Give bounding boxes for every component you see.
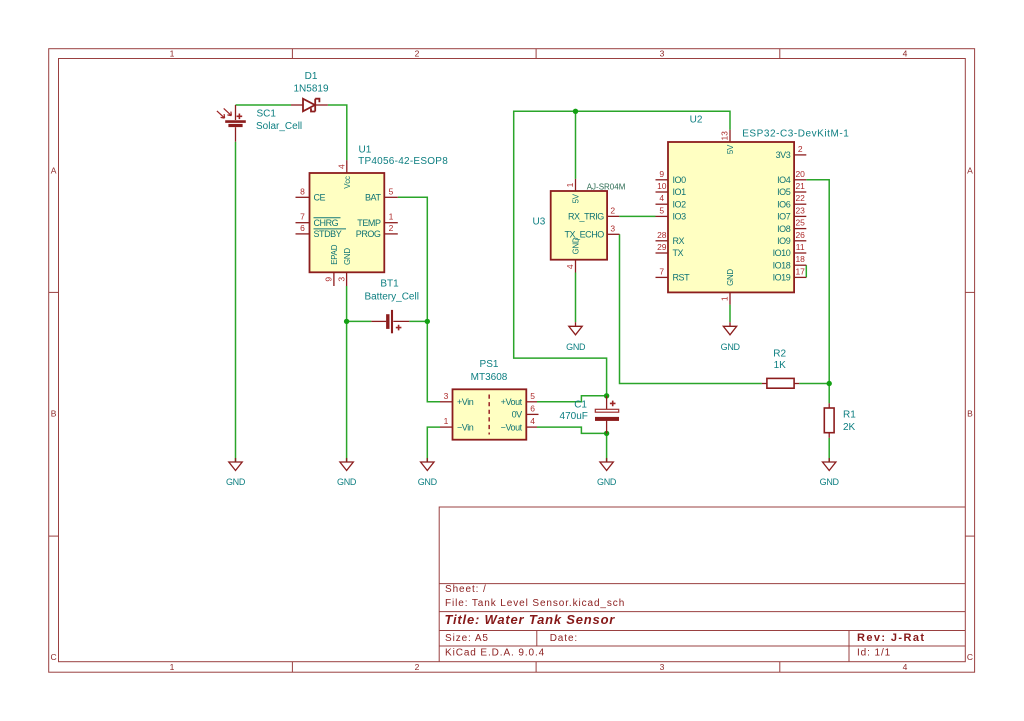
battery BT1	[371, 310, 409, 333]
svg-text:11: 11	[796, 242, 805, 252]
U1 pin 3 GND bottom	[346, 272, 348, 286]
sensor U3 AJ-SR04M body	[551, 191, 607, 260]
frame column tick 2|3 bottom	[535, 662, 537, 673]
svg-text:21: 21	[795, 181, 805, 191]
svg-text:Sheet: /: Sheet: /	[445, 584, 487, 595]
svg-text:BAT: BAT	[365, 193, 381, 203]
svg-text:C: C	[967, 652, 973, 662]
svg-text:Vcc: Vcc	[343, 176, 352, 189]
svg-text:5V: 5V	[726, 144, 735, 154]
diode D1 1N5819 schottky	[291, 99, 328, 112]
junction C1 bottom node	[604, 431, 609, 436]
U3 pin 1 5V top	[575, 179, 577, 191]
svg-text:A: A	[967, 166, 973, 176]
U2 pin 10 IO1	[656, 191, 669, 193]
svg-text:TP4056-42-ESOP8: TP4056-42-ESOP8	[358, 156, 448, 167]
svg-text:R2: R2	[773, 349, 786, 360]
svg-text:3V3: 3V3	[776, 150, 791, 160]
wire U2 IO4 right and down to divider node	[806, 180, 829, 384]
title block row line above Size	[439, 630, 965, 632]
svg-text:C: C	[51, 652, 57, 662]
sheet frame outer border	[49, 49, 975, 673]
svg-text:6: 6	[530, 403, 535, 413]
svg-text:7: 7	[659, 266, 664, 276]
wire C1 bottom node to GND	[606, 433, 608, 461]
wire diode cathode to U1 VCC pin	[328, 105, 347, 160]
svg-text:4: 4	[565, 264, 575, 269]
svg-text:IO6: IO6	[777, 199, 791, 209]
svg-text:B: B	[51, 408, 57, 418]
ground symbol under R1	[823, 458, 836, 471]
svg-text:IO3: IO3	[673, 212, 687, 222]
svg-text:2: 2	[798, 144, 803, 154]
svg-text:GND: GND	[343, 248, 352, 265]
U2 pin 21 IO5	[794, 191, 806, 193]
title block outline	[439, 507, 965, 662]
svg-text:8: 8	[300, 186, 305, 196]
svg-text:TX: TX	[673, 248, 684, 258]
svg-text:SC1: SC1	[257, 109, 277, 120]
svg-text:−Vout: −Vout	[501, 422, 523, 432]
svg-text:1: 1	[565, 182, 575, 187]
frame row tick A|B left	[49, 291, 59, 293]
wire 5V net C1 node up across to U2 5V pin	[514, 111, 730, 396]
frame column tick 3|4 bottom	[779, 662, 781, 673]
PS1 pin 1 -Vin	[440, 426, 453, 428]
wire battery plus node down to PS1 +Vin	[427, 321, 440, 401]
title block row line above Sheet	[439, 583, 965, 585]
svg-text:GND: GND	[226, 477, 246, 487]
svg-text:IO8: IO8	[777, 224, 791, 234]
svg-text:1: 1	[444, 416, 449, 426]
svg-text:IO4: IO4	[777, 175, 791, 185]
U3 pin 4 GND bottom	[575, 260, 577, 273]
svg-text:RX_TRIG: RX_TRIG	[568, 212, 604, 222]
ground symbol under U1	[340, 458, 353, 471]
svg-text:18: 18	[795, 254, 805, 264]
U1 pin 2 PROG	[384, 233, 398, 235]
frame column tick 3|4 top	[779, 49, 781, 59]
U2 pin 5 IO3	[656, 215, 669, 217]
svg-text:3: 3	[336, 277, 346, 282]
U2 pin 29 TX	[656, 252, 669, 254]
U2 pin 25 IO8	[794, 228, 806, 230]
ground symbol under U3	[569, 322, 582, 335]
svg-text:GND: GND	[726, 269, 735, 286]
svg-text:Size: A5: Size: A5	[445, 633, 489, 644]
title block row line above KiCad	[439, 645, 965, 647]
U1 pin 4 VCC top	[346, 160, 348, 173]
ground symbol under solar cell	[229, 458, 242, 471]
svg-text:2K: 2K	[843, 422, 856, 433]
wire R1 bottom to GND	[828, 438, 830, 462]
svg-text:9: 9	[324, 277, 334, 282]
svg-text:Battery_Cell: Battery_Cell	[364, 291, 418, 302]
svg-text:26: 26	[795, 230, 805, 240]
svg-text:IO2: IO2	[673, 199, 687, 209]
junction battery minus node	[344, 319, 349, 324]
MCU U2 ESP32 body	[668, 142, 794, 292]
svg-text:28: 28	[657, 230, 667, 240]
svg-text:4: 4	[336, 164, 346, 169]
svg-text:29: 29	[657, 242, 667, 252]
frame column tick 1|2 bottom	[291, 662, 293, 673]
svg-text:2: 2	[415, 49, 420, 59]
svg-text:3: 3	[444, 391, 449, 401]
U2 pin 9 IO0	[656, 179, 669, 181]
svg-text:IO7: IO7	[777, 212, 791, 222]
svg-text:10: 10	[657, 181, 667, 191]
svg-text:−Vin: −Vin	[457, 422, 474, 432]
U2 pin 11 IO10	[794, 252, 806, 254]
wire U2 GND pin down to GND	[729, 305, 731, 323]
ground symbol under U2	[723, 322, 736, 335]
PS1 pin 3 +Vin	[440, 401, 453, 403]
wire tying U2 IO18 to IO19	[805, 265, 807, 277]
wire U3 TX_ECHO down and right to R2	[620, 234, 762, 383]
frame column tick 2|3 top	[535, 49, 537, 59]
wire U1 BAT pin to battery plus node	[398, 197, 428, 321]
svg-text:CHRG: CHRG	[314, 218, 339, 228]
svg-text:C1: C1	[574, 399, 587, 410]
svg-text:4: 4	[903, 49, 908, 59]
svg-text:25: 25	[795, 218, 805, 228]
U1 pin 1 TEMP	[384, 222, 398, 224]
svg-text:1: 1	[170, 662, 175, 672]
svg-text:IO10: IO10	[773, 248, 791, 258]
wire PS1 -Vin to GND	[427, 427, 440, 462]
svg-text:22: 22	[795, 193, 805, 203]
PS1 pin 4 -Vout	[526, 426, 537, 428]
U3 pin 3 TX_ECHO	[607, 233, 619, 235]
svg-text:IO19: IO19	[773, 273, 791, 283]
U2 pin 2 3V3	[794, 154, 806, 156]
U3 pin 2 RX_TRIG	[607, 215, 619, 217]
frame row tick B|C right	[965, 535, 974, 537]
wire PS1 +Vout to C1 top node	[537, 396, 607, 402]
svg-text:23: 23	[795, 205, 805, 215]
U2 pin 22 IO6	[794, 203, 806, 205]
svg-text:4: 4	[903, 662, 908, 672]
svg-text:GND: GND	[572, 237, 581, 254]
svg-text:2: 2	[415, 662, 420, 672]
wire U3 GND pin down to GND	[575, 273, 577, 323]
U1 pin 9 EPAD bottom	[333, 272, 335, 286]
svg-text:9: 9	[659, 169, 664, 179]
junction divider node R1 R2 IO4	[827, 381, 832, 386]
wire battery minus pin to node	[347, 320, 372, 322]
U2 pin 13 5V top	[729, 130, 731, 142]
U2 pin 17 IO19	[794, 276, 806, 278]
wire U3 RX_TRIG to U2 IO3	[619, 215, 655, 217]
svg-text:GND: GND	[418, 477, 438, 487]
frame row tick B|C left	[49, 535, 59, 537]
svg-text:1: 1	[719, 296, 729, 301]
svg-text:GND: GND	[337, 477, 357, 487]
svg-text:IO9: IO9	[777, 236, 791, 246]
svg-text:TEMP: TEMP	[357, 218, 381, 228]
solar cell SC1	[217, 105, 246, 142]
resistor R2 horizontal	[762, 378, 799, 388]
svg-text:ESP32-C3-DevKitM-1: ESP32-C3-DevKitM-1	[742, 129, 849, 140]
svg-text:2: 2	[610, 205, 615, 215]
svg-text:1: 1	[170, 49, 175, 59]
svg-text:R1: R1	[843, 410, 856, 421]
svg-text:U2: U2	[690, 115, 703, 126]
svg-text:RX: RX	[673, 236, 685, 246]
svg-text:IO5: IO5	[777, 187, 791, 197]
PS1 pin 5 +Vout	[526, 401, 537, 403]
svg-text:20: 20	[795, 169, 805, 179]
svg-text:5: 5	[659, 205, 664, 215]
junction battery plus node	[425, 319, 430, 324]
svg-text:Rev: J-Rat: Rev: J-Rat	[857, 632, 925, 644]
U2 pin 23 IO7	[794, 215, 806, 217]
svg-text:A: A	[51, 166, 57, 176]
svg-text:4: 4	[659, 193, 664, 203]
svg-text:IO1: IO1	[673, 187, 687, 197]
U2 pin 28 RX	[656, 240, 669, 242]
title block divider Size|Date	[536, 631, 538, 647]
svg-text:0V: 0V	[512, 410, 523, 420]
svg-text:RST: RST	[673, 273, 691, 283]
capacitor C1 polarized	[595, 396, 618, 434]
wire solar cell bottom to GND	[235, 142, 237, 462]
frame row tick A|B right	[965, 291, 974, 293]
svg-text:EPAD: EPAD	[330, 244, 339, 264]
junction C1 top node	[604, 393, 609, 398]
U2 pin 4 IO2	[656, 203, 669, 205]
wire R2 right lead to divider node	[799, 383, 829, 385]
wire solar cell top to diode anode	[236, 104, 292, 106]
svg-text:5V: 5V	[572, 193, 581, 203]
svg-text:GND: GND	[597, 477, 617, 487]
wire U1 GND pin down to GND, through battery minus node	[346, 286, 348, 462]
svg-text:1N5819: 1N5819	[293, 84, 328, 95]
svg-text:B: B	[967, 408, 973, 418]
svg-text:TX_ECHO: TX_ECHO	[564, 230, 604, 240]
svg-text:KiCad E.D.A. 9.0.4: KiCad E.D.A. 9.0.4	[445, 648, 545, 659]
svg-text:2: 2	[389, 223, 394, 233]
svg-text:IO18: IO18	[773, 260, 791, 270]
svg-text:GND: GND	[566, 342, 586, 352]
svg-text:7: 7	[300, 212, 305, 222]
U1 pin 5 BAT	[384, 196, 398, 198]
wire 5V branch down to U3 pin1	[575, 111, 577, 179]
svg-text:MT3608: MT3608	[471, 372, 508, 383]
U2 pin 20 IO4	[794, 179, 806, 181]
svg-text:6: 6	[300, 223, 305, 233]
svg-text:13: 13	[719, 131, 729, 141]
wire battery plus pin to node	[409, 320, 427, 322]
svg-text:470uF: 470uF	[560, 411, 588, 422]
regulator PS1 MT3608 body	[453, 389, 527, 439]
svg-text:+Vin: +Vin	[457, 397, 474, 407]
title block divider Date|Rev	[848, 631, 850, 662]
svg-text:U3: U3	[533, 216, 546, 227]
frame column tick 1|2 top	[291, 49, 293, 59]
PS1 pin 6 0V	[526, 413, 538, 415]
svg-text:U1: U1	[359, 144, 372, 155]
U2 pin 7 RST	[656, 276, 669, 278]
svg-text:4: 4	[530, 416, 535, 426]
svg-text:Date:: Date:	[550, 633, 578, 644]
U2 pin 18 IO18	[794, 264, 806, 266]
PS1 dashed divider	[488, 395, 490, 435]
junction 5V net at U3 branch	[573, 109, 578, 114]
svg-text:PROG: PROG	[356, 229, 381, 239]
U2 pin 26 IO9	[794, 240, 806, 242]
svg-text:Title: Water Tank Sensor: Title: Water Tank Sensor	[445, 612, 616, 627]
sheet frame inner border	[59, 59, 966, 662]
U2 pin 1 GND bottom	[729, 292, 731, 304]
svg-text:1: 1	[389, 212, 394, 222]
svg-text:3: 3	[660, 662, 665, 672]
ground symbol under PS1 -Vin	[421, 458, 434, 471]
wire PS1 -Vout to C1 bottom node	[537, 427, 607, 433]
svg-text:Id: 1/1: Id: 1/1	[857, 648, 891, 659]
svg-text:GND: GND	[721, 342, 741, 352]
svg-text:5: 5	[530, 391, 535, 401]
svg-text:17: 17	[795, 266, 805, 276]
svg-text:PS1: PS1	[480, 359, 499, 370]
svg-text:AJ-SR04M: AJ-SR04M	[587, 182, 626, 191]
svg-text:3: 3	[610, 223, 615, 233]
svg-text:+Vout: +Vout	[501, 397, 523, 407]
ground symbol under C1	[600, 458, 613, 471]
U1 pin 7 CHRG	[296, 222, 310, 224]
U1 pin 6 STDBY	[296, 233, 310, 235]
wire divider node down to R1	[828, 384, 830, 404]
svg-text:1K: 1K	[774, 360, 787, 371]
svg-text:BT1: BT1	[380, 278, 399, 289]
resistor R1 vertical	[824, 403, 834, 438]
svg-text:D1: D1	[305, 71, 318, 82]
IC U1 TP4056 body	[310, 173, 385, 272]
svg-text:5: 5	[389, 186, 394, 196]
svg-text:Solar_Cell: Solar_Cell	[256, 121, 302, 132]
svg-text:GND: GND	[820, 477, 840, 487]
U1 pin 8 CE	[296, 196, 310, 198]
title block row line above Title	[439, 611, 965, 613]
svg-text:3: 3	[660, 49, 665, 59]
svg-text:CE: CE	[314, 193, 326, 203]
svg-text:STDBY: STDBY	[314, 229, 342, 239]
svg-text:IO0: IO0	[673, 175, 687, 185]
svg-text:File: Tank Level Sensor.kicad_: File: Tank Level Sensor.kicad_sch	[445, 598, 625, 609]
